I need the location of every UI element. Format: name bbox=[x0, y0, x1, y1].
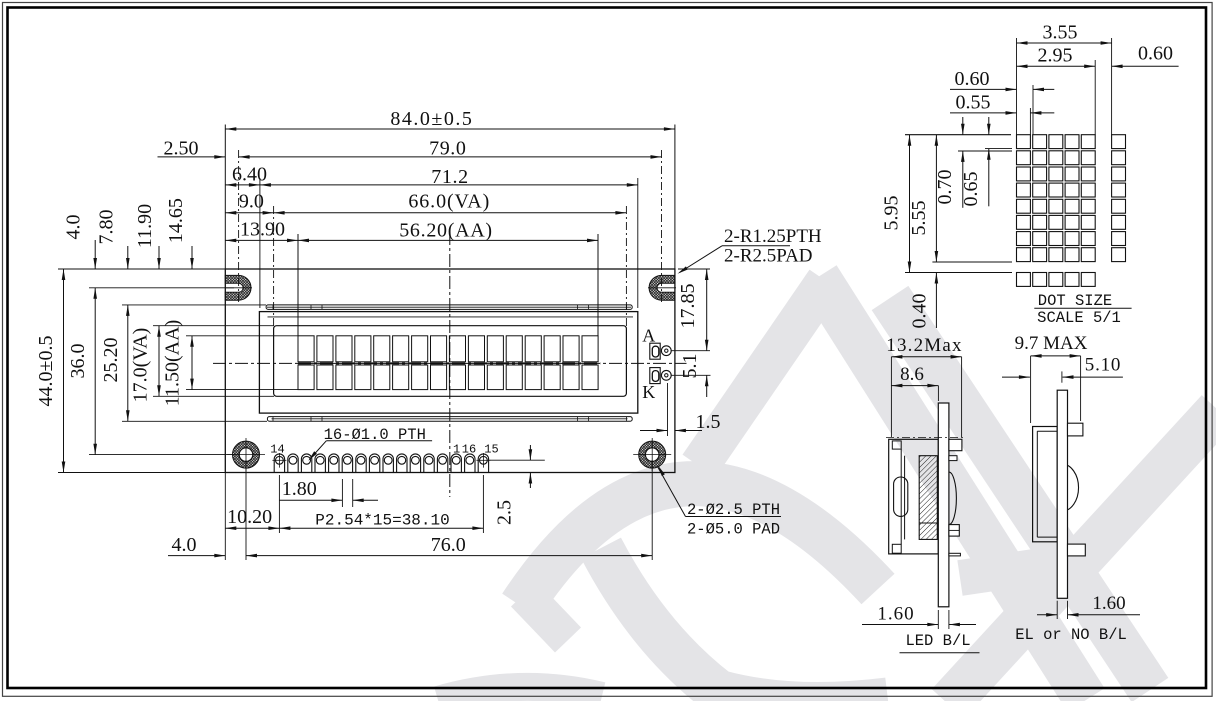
svg-text:9.7 MAX: 9.7 MAX bbox=[1015, 333, 1088, 354]
svg-text:2.5: 2.5 bbox=[494, 500, 516, 525]
svg-text:0.40: 0.40 bbox=[909, 294, 931, 329]
svg-text:11.90: 11.90 bbox=[134, 204, 156, 248]
dimension 2.5 bbox=[489, 445, 544, 525]
extension lines right side bbox=[672, 269, 711, 375]
dimension 79.0 bbox=[239, 138, 662, 160]
dimension 11.90 bbox=[134, 204, 161, 269]
svg-text:66.0(VA): 66.0(VA) bbox=[408, 190, 490, 212]
dimension 1.60 EL bbox=[1037, 593, 1140, 619]
svg-text:1.60: 1.60 bbox=[877, 604, 914, 625]
dimension 0.55 bbox=[950, 92, 1054, 115]
display window VA area bbox=[274, 326, 627, 397]
svg-text:3.55: 3.55 bbox=[1043, 22, 1078, 44]
svg-text:1: 1 bbox=[453, 442, 460, 456]
dimension 0.40 bbox=[909, 273, 939, 329]
label LED B/L bbox=[900, 632, 980, 653]
dimension P2.54*15=38.10 bbox=[279, 475, 483, 533]
dimension 4.0 top-left bbox=[63, 215, 97, 270]
label DOT SIZE SCALE 5/1 bbox=[1034, 292, 1131, 327]
dimension 10.20 bbox=[225, 473, 279, 561]
label 16-dia1.0 PTH with leader bbox=[308, 426, 432, 461]
mounting slot right 2-R1.25PTH bbox=[648, 275, 676, 300]
svg-text:10.20: 10.20 bbox=[227, 506, 272, 528]
dimension 13.90 bbox=[225, 219, 298, 243]
dimension 13.2Max bbox=[886, 335, 962, 437]
svg-text:6.40: 6.40 bbox=[232, 164, 267, 186]
dimension 25.20 bbox=[100, 305, 130, 421]
EL side view frame bbox=[1033, 427, 1058, 542]
dimension 44.0 plus-minus 0.5 bbox=[35, 269, 65, 473]
svg-text:14.65: 14.65 bbox=[165, 198, 187, 243]
dimension 17.85 bbox=[677, 269, 709, 351]
svg-text:13.2Max: 13.2Max bbox=[886, 335, 962, 356]
svg-text:1.5: 1.5 bbox=[696, 411, 721, 433]
svg-text:P2.54*15=38.10: P2.54*15=38.10 bbox=[315, 511, 449, 529]
svg-text:DOT SIZE: DOT SIZE bbox=[1038, 292, 1112, 310]
svg-text:A: A bbox=[642, 326, 655, 346]
vertical centerline bbox=[449, 232, 451, 497]
dimension 9.7 MAX bbox=[1015, 333, 1088, 423]
dimension 56.20(AA) bbox=[298, 219, 598, 242]
svg-text:36.0: 36.0 bbox=[67, 344, 89, 379]
character cells 16x2 AA area bbox=[298, 336, 598, 390]
LED view top tab bbox=[949, 439, 962, 460]
extension lines above module bbox=[225, 125, 675, 337]
dimension 2.50 bbox=[158, 138, 226, 160]
mounting hole bottom-right 2-dia2.5 PTH bbox=[633, 438, 671, 471]
dimension 17.0(VA) bbox=[130, 326, 161, 403]
dimension 6.40 bbox=[225, 164, 267, 187]
svg-text:SCALE 5/1: SCALE 5/1 bbox=[1037, 309, 1121, 327]
svg-text:EL or NO B/L: EL or NO B/L bbox=[1015, 626, 1127, 644]
svg-text:2.50: 2.50 bbox=[164, 138, 199, 160]
zebra elastomer connector bbox=[894, 477, 908, 516]
svg-text:2-Ø5.0 PAD: 2-Ø5.0 PAD bbox=[687, 521, 780, 539]
metal bezel frame bbox=[259, 312, 637, 414]
svg-text:56.20(AA): 56.20(AA) bbox=[399, 219, 493, 241]
svg-text:14: 14 bbox=[270, 442, 284, 456]
dimension 0.65 bbox=[960, 117, 991, 207]
dimension 0.60 right bbox=[1112, 43, 1179, 69]
dimension 76.0 bbox=[246, 460, 652, 560]
dot pitch row bbox=[1017, 273, 1096, 287]
svg-text:4.0: 4.0 bbox=[63, 215, 85, 240]
bottom polarizer film bar bbox=[267, 417, 632, 422]
PCB cross-section LED view bbox=[938, 403, 949, 607]
PCB outline 84.0 x 44.0 front view bbox=[225, 269, 675, 473]
extension lines left side bbox=[58, 269, 298, 473]
svg-text:8.6: 8.6 bbox=[900, 364, 924, 385]
svg-text:5.95: 5.95 bbox=[881, 196, 903, 231]
dot pitch column bbox=[1112, 135, 1126, 262]
dimension 84.0 plus-minus 0.5 bbox=[225, 108, 675, 131]
dimension 4.0 bottom bbox=[168, 534, 225, 557]
svg-text:79.0: 79.0 bbox=[429, 138, 466, 160]
mounting slot left 2-R1.25PTH bbox=[225, 275, 252, 300]
svg-text:2-R2.5PAD: 2-R2.5PAD bbox=[724, 246, 813, 267]
svg-text:2.95: 2.95 bbox=[1038, 45, 1073, 67]
dimension 7.80 bbox=[96, 210, 130, 270]
svg-text:16: 16 bbox=[462, 442, 476, 456]
horizontal centerline bbox=[213, 362, 687, 364]
LED side view frame bbox=[889, 439, 939, 554]
svg-text:2-R1.25PTH: 2-R1.25PTH bbox=[724, 226, 822, 247]
dimension 5.95 bbox=[881, 135, 912, 273]
svg-text:0.60: 0.60 bbox=[1138, 43, 1173, 65]
LED view bottom tab bbox=[949, 525, 961, 556]
LED lens arc bbox=[949, 472, 956, 525]
dimension 66.0(VA) bbox=[274, 190, 627, 214]
svg-text:0.70: 0.70 bbox=[934, 170, 956, 205]
top polarizer film bar bbox=[266, 305, 632, 310]
dimension 11.50(AA) bbox=[162, 320, 194, 406]
svg-text:7.80: 7.80 bbox=[96, 210, 118, 245]
dimension 5.1 bbox=[679, 354, 709, 398]
dimension 9.0 bbox=[225, 191, 273, 215]
backlight terminal K bbox=[650, 368, 671, 384]
dimension 1.5 bbox=[640, 383, 721, 436]
PCB cross-section EL view bbox=[1057, 390, 1067, 598]
svg-text:13.90: 13.90 bbox=[240, 219, 285, 241]
dimension 5.55 bbox=[908, 135, 938, 262]
LED view top centerline bbox=[886, 437, 963, 439]
dimension 2.95 bbox=[1017, 45, 1096, 69]
svg-text:1.60: 1.60 bbox=[1092, 593, 1125, 614]
LED backlight hatched block bbox=[919, 456, 937, 540]
dot matrix grid 5x8 bbox=[1017, 135, 1096, 262]
EL view top tab bbox=[1068, 423, 1083, 436]
dimension 8.6 bbox=[891, 364, 938, 401]
svg-text:5.1: 5.1 bbox=[679, 354, 701, 379]
svg-text:LED B/L: LED B/L bbox=[905, 632, 970, 650]
svg-text:17.85: 17.85 bbox=[677, 284, 699, 329]
svg-text:17.0(VA): 17.0(VA) bbox=[130, 328, 152, 403]
dimension 1.60 LED bbox=[862, 604, 976, 630]
svg-text:0.55: 0.55 bbox=[956, 92, 991, 114]
dimension 0.60 left bbox=[950, 68, 1054, 91]
pin row 16 pads 16-dia1.0 PTH bbox=[272, 453, 490, 473]
svg-text:K: K bbox=[642, 382, 655, 402]
dimension 5.10 bbox=[1002, 355, 1123, 383]
svg-text:5.10: 5.10 bbox=[1085, 355, 1121, 376]
EL lens arc bbox=[1062, 464, 1079, 511]
svg-text:5.55: 5.55 bbox=[908, 201, 930, 236]
svg-text:0.65: 0.65 bbox=[960, 172, 982, 207]
label 2-dia2.5 PTH 2-dia5.0 PAD with leader bbox=[658, 466, 782, 539]
dimension 14.65 bbox=[165, 198, 194, 269]
backlight terminal A bbox=[650, 343, 671, 359]
svg-text:25.20: 25.20 bbox=[100, 338, 122, 383]
svg-text:15: 15 bbox=[484, 442, 498, 456]
svg-text:76.0: 76.0 bbox=[431, 534, 466, 556]
svg-text:71.2: 71.2 bbox=[431, 166, 468, 188]
dimension 36.0 bbox=[67, 288, 97, 455]
dot matrix extension lines bbox=[905, 38, 1112, 273]
mounting hole bottom-left 2-dia2.5 PTH bbox=[227, 438, 265, 471]
EL view bottom tab bbox=[1068, 544, 1086, 556]
tape tick marks on film bars bbox=[273, 305, 627, 421]
svg-text:84.0±0.5: 84.0±0.5 bbox=[390, 108, 473, 130]
dimension 3.55 bbox=[1017, 22, 1112, 45]
label 2-R1.25PTH 2-R2.5PAD with leader bbox=[678, 226, 822, 274]
dimension 0.70 bbox=[934, 117, 965, 208]
svg-text:1.80: 1.80 bbox=[282, 478, 317, 500]
svg-text:0.60: 0.60 bbox=[955, 68, 990, 90]
svg-text:4.0: 4.0 bbox=[172, 534, 197, 556]
svg-text:11.50(AA): 11.50(AA) bbox=[162, 320, 184, 406]
svg-text:44.0±0.5: 44.0±0.5 bbox=[35, 336, 57, 407]
svg-text:2-Ø2.5 PTH: 2-Ø2.5 PTH bbox=[687, 501, 780, 519]
dimension 71.2 bbox=[260, 166, 638, 188]
svg-text:9.0: 9.0 bbox=[239, 191, 264, 213]
dimension 1.80 bbox=[279, 478, 378, 507]
